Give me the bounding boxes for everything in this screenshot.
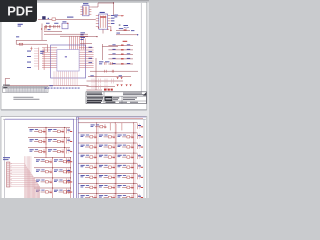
capacitor C2: [45, 25, 46, 28]
net tick: [137, 174, 143, 179]
transistor rows: [108, 44, 133, 64]
column wire: [45, 127, 47, 135]
row Q1: [108, 44, 133, 46]
wire stub left: [4, 79, 6, 86]
key switch SR7: [81, 195, 97, 199]
wire under U3: [102, 29, 104, 33]
column bus wires: [97, 123, 134, 198]
left group box: [5, 119, 74, 198]
left cell rows: [28, 127, 72, 194]
net tick: [137, 123, 143, 128]
label: [62, 20, 66, 23]
key switch SR6: [81, 185, 97, 189]
pin name table: [3, 87, 48, 93]
wire right drop: [46, 44, 48, 52]
labels right of U1: [89, 47, 93, 63]
vertical bus x102: [101, 44, 103, 60]
key switch SL1: [30, 129, 46, 133]
resistor R10: [118, 15, 124, 17]
key switch SL3: [48, 149, 64, 153]
column wire: [45, 138, 47, 146]
key switch SL2: [30, 139, 46, 143]
U1 right pins: [79, 48, 94, 68]
frame right line: [143, 119, 145, 198]
page 1 sheet: [1, 2, 147, 109]
red text: [123, 41, 128, 42]
node dot: [113, 2, 114, 3]
logo: [105, 97, 113, 101]
IC U3 label: [100, 12, 105, 13]
capacitor C1: [45, 27, 46, 31]
resistor pack RN1: [38, 48, 40, 71]
key switch SL6: [54, 179, 70, 183]
row wire: [34, 177, 70, 179]
key switch SR7: [118, 195, 134, 199]
row wire: [78, 152, 137, 154]
dark label: [42, 16, 45, 19]
labels: [46, 22, 50, 25]
row wire: [78, 172, 137, 174]
row wire: [78, 162, 137, 164]
net tick: [137, 194, 143, 199]
net label: [49, 84, 53, 87]
net tick: [67, 158, 73, 163]
key switch SL1: [48, 129, 64, 133]
row wire: [34, 157, 70, 159]
label: [16, 35, 19, 38]
capacitor C12 label: [123, 25, 128, 26]
fan shade: [25, 163, 40, 198]
PDF badge: [0, 0, 37, 22]
labels column mid: [80, 32, 85, 40]
capacitor C9: [112, 70, 114, 73]
net tick: [67, 189, 73, 194]
wire into U3: [56, 18, 96, 20]
row wire: [28, 147, 70, 149]
wire h y40.3: [16, 40, 47, 44]
right group top bus: [78, 117, 143, 119]
column wire: [45, 148, 47, 156]
IC U2 (resistor array): [83, 6, 89, 16]
column wire: [121, 123, 123, 131]
bottom centre cluster: [87, 61, 139, 90]
U1 ref label: [65, 56, 67, 57]
row Q4: [108, 58, 133, 60]
label: [67, 17, 73, 18]
column bus companions: [98, 124, 135, 198]
key switch SL3: [30, 149, 46, 153]
wire top net: [91, 3, 113, 7]
resistor R3: [19, 43, 23, 45]
row Q2: [108, 49, 133, 51]
key switch SR3: [118, 155, 134, 159]
U3 right pins: [108, 16, 111, 27]
wire y46.7: [102, 46, 118, 48]
net tick: [137, 164, 143, 169]
key switch SR4: [81, 165, 97, 169]
svg-text:PDF: PDF: [7, 3, 33, 18]
capacitor C5: [58, 25, 59, 28]
key switch SR1: [99, 134, 115, 138]
resistor R2: [52, 18, 56, 20]
key switch SR5: [81, 175, 97, 179]
diode row 1: [87, 80, 124, 82]
wire y34 bus: [44, 33, 88, 35]
wire cap bus: [44, 26, 60, 28]
connector J1: [7, 162, 10, 187]
title block: [86, 92, 146, 104]
row wire: [28, 137, 70, 139]
row wire: [78, 122, 137, 124]
net tick: [67, 138, 73, 143]
capacitor C3: [49, 25, 50, 28]
tick: [119, 24, 121, 27]
right cells text: [123, 96, 137, 99]
net tick: [137, 184, 143, 189]
net tick: [67, 148, 73, 153]
key switch SR3: [99, 155, 115, 159]
wire vert x42: [41, 24, 43, 41]
wire y36.6: [80, 36, 97, 38]
vertical bus x96: [95, 58, 97, 90]
row Q5: [108, 63, 133, 65]
right cell rows: [78, 123, 143, 200]
MCU U1 body: [57, 50, 79, 71]
net tick: [137, 144, 143, 149]
key switch SR6: [118, 185, 134, 189]
row wire: [78, 193, 137, 195]
title text lines: [87, 93, 102, 94]
label cluster top-left: [18, 24, 23, 25]
net tick: [67, 168, 73, 173]
sheet inner frame right: [140, 3, 142, 92]
notes text: [13, 96, 33, 99]
RN1 stubs: [34, 49, 39, 67]
red marks: [104, 89, 107, 91]
key switch SR5: [99, 175, 115, 179]
row wire: [34, 187, 70, 189]
diode arrows: [117, 77, 132, 86]
U3 inner marks: [100, 16, 105, 28]
row Q3: [108, 53, 133, 55]
label VCC blue: [114, 15, 118, 16]
U2 left pins: [80, 7, 82, 14]
key switch SL5: [54, 169, 70, 173]
net tick: [137, 154, 143, 159]
gap shadow: [1, 109, 147, 111]
wire y89.5: [87, 89, 103, 91]
diode D2: [30, 47, 32, 51]
net tick: [67, 128, 73, 133]
wire row y76.5: [88, 76, 131, 78]
row net 1: [116, 28, 134, 31]
U3 left pins: [96, 16, 99, 27]
key switch SL7: [36, 189, 52, 193]
U1 left pins: [42, 48, 57, 68]
pin labels under bus: [45, 87, 80, 90]
IC U3: [99, 14, 108, 29]
key switch SR4: [118, 165, 134, 169]
wire vcc drop: [113, 3, 115, 15]
junction dots: [96, 122, 134, 194]
right group box: [77, 117, 146, 198]
pin labels left: [27, 51, 31, 68]
wire fan: [11, 156, 40, 198]
decoupling caps cluster: [44, 23, 60, 30]
wire y36: [60, 35, 88, 37]
key switch SL2: [48, 139, 64, 143]
node dot U3: [98, 27, 99, 28]
frame left line: [4, 119, 6, 198]
frame top line: [3, 118, 146, 120]
U1 bottom pins: [54, 71, 77, 85]
IC U2 label: [83, 3, 88, 4]
wire y31.5: [44, 31, 62, 33]
key switch SR7: [99, 195, 115, 199]
key switch SL4: [54, 159, 70, 163]
wire row y71: [90, 70, 138, 72]
key switch SR6: [99, 185, 115, 189]
U3 right pin labels: [111, 15, 114, 24]
key switch SR2: [118, 144, 134, 148]
IC U4 small: [62, 23, 68, 29]
row wire: [78, 182, 137, 184]
key switch SL7: [54, 189, 70, 193]
diode row 2: [87, 86, 116, 88]
key switch SR2: [99, 144, 115, 148]
key switch SR3: [81, 155, 97, 159]
net tick: [67, 179, 73, 184]
connector J1 labels: [3, 157, 10, 158]
capacitor C4: [54, 25, 55, 28]
row net 2: [116, 33, 138, 36]
net tick: [137, 134, 143, 139]
key switch SL4: [36, 159, 52, 163]
row wire: [78, 132, 137, 134]
wire y43.6: [80, 43, 92, 45]
capacitor C8: [105, 70, 107, 73]
key switch SR1: [118, 134, 134, 138]
labels: [99, 60, 103, 63]
J1 pin stubs: [10, 164, 12, 186]
MCU U1 outer ring: [51, 45, 86, 78]
key switch SL5: [36, 169, 52, 173]
key switch SR5: [118, 175, 134, 179]
QFP top pins: [69, 36, 85, 49]
wire from badge area: [38, 18, 52, 20]
column wire: [109, 123, 111, 131]
table title: [3, 85, 10, 86]
key switch SR4: [99, 165, 115, 169]
key switch SL6: [36, 179, 52, 183]
U2 right pins: [89, 7, 91, 14]
bottom bus: [5, 85, 89, 87]
row wire: [28, 126, 70, 128]
wire h y44.2: [16, 43, 47, 45]
wire stub: [110, 26, 112, 30]
row wire: [34, 167, 70, 169]
row wire: [78, 142, 137, 144]
junction dots: [45, 127, 71, 189]
key switch SR2: [81, 144, 97, 148]
key switch SR1: [81, 134, 97, 138]
page 2 sheet: [1, 117, 147, 201]
driver cell: [91, 124, 107, 128]
column bus wires: [46, 127, 71, 198]
